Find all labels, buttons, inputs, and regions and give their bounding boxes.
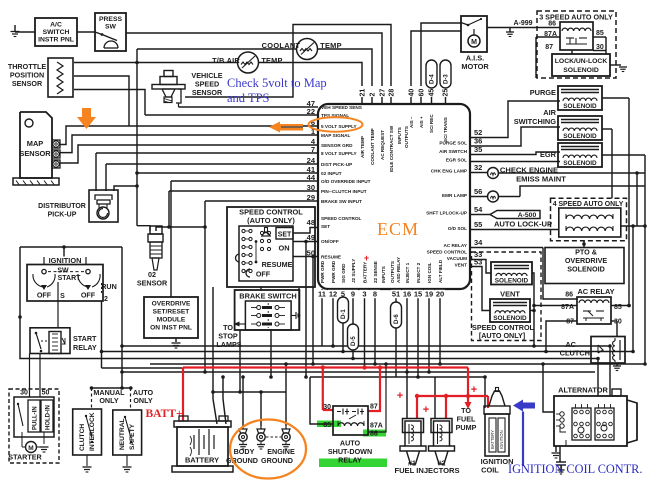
svg-text:COIL: COIL <box>481 466 499 475</box>
svg-text:EGR SOL: EGR SOL <box>446 158 467 163</box>
svg-text:FUEL INJECTORS: FUEL INJECTORS <box>394 466 459 475</box>
svg-text:2: 2 <box>104 296 108 303</box>
svg-text:87: 87 <box>370 404 378 411</box>
svg-text:30: 30 <box>614 319 622 326</box>
svg-text:SAFETY: SAFETY <box>129 423 136 450</box>
svg-text:AIS –: AIS – <box>409 116 414 128</box>
svg-text:48: 48 <box>307 218 315 227</box>
svg-text:IGNITION: IGNITION <box>49 256 82 265</box>
svg-text:SENSOR GRD: SENSOR GRD <box>321 143 353 148</box>
svg-text:21: 21 <box>360 89 367 97</box>
svg-text:50: 50 <box>42 390 50 397</box>
svg-text:SENSOR: SENSOR <box>19 149 51 158</box>
svg-text:D-4: D-4 <box>430 74 436 84</box>
svg-text:87: 87 <box>566 319 574 326</box>
svg-text:PICK-UP: PICK-UP <box>48 212 77 219</box>
svg-text:T/B AIR: T/B AIR <box>212 56 240 65</box>
svg-text:SIG GRD: SIG GRD <box>341 263 346 283</box>
svg-text:27: 27 <box>380 89 387 97</box>
svg-text:PULL-IN: PULL-IN <box>33 406 39 430</box>
svg-text:29: 29 <box>307 193 315 202</box>
svg-text:22: 22 <box>307 107 315 116</box>
svg-text:PIN--CLUTCH INPUT: PIN--CLUTCH INPUT <box>321 189 367 194</box>
svg-text:SW: SW <box>105 24 117 31</box>
svg-text:53: 53 <box>474 258 482 267</box>
svg-text:30: 30 <box>307 183 315 192</box>
svg-text:VENT: VENT <box>454 263 467 268</box>
svg-text:87: 87 <box>545 44 553 51</box>
svg-text:J2 SUPPLY: J2 SUPPLY <box>351 259 356 283</box>
svg-text:49: 49 <box>307 233 315 242</box>
svg-text:87A: 87A <box>544 31 557 38</box>
svg-text:SCI REC: SCI REC <box>429 114 434 133</box>
svg-text:+: + <box>423 404 429 416</box>
svg-text:35: 35 <box>474 145 482 154</box>
svg-text:LAMPS: LAMPS <box>216 340 241 349</box>
svg-text:O/D OVERRIDE INPUT: O/D OVERRIDE INPUT <box>321 179 371 184</box>
svg-text:30: 30 <box>596 44 604 51</box>
svg-text:INJECT 1: INJECT 1 <box>405 262 410 283</box>
svg-text:RELAY: RELAY <box>338 456 362 465</box>
svg-text:EGR: EGR <box>540 150 557 159</box>
svg-text:30: 30 <box>323 404 331 411</box>
svg-text:SENSOR: SENSOR <box>137 279 168 288</box>
svg-text:BATTERY: BATTERY <box>490 430 495 449</box>
svg-text:ON/OFF: ON/OFF <box>321 239 339 244</box>
svg-text:M: M <box>471 39 477 46</box>
svg-text:85: 85 <box>614 304 622 311</box>
svg-text:20: 20 <box>436 290 444 299</box>
svg-text:BODY: BODY <box>234 447 255 456</box>
svg-text:STARTER: STARTER <box>8 453 42 462</box>
svg-text:ONLY: ONLY <box>133 396 153 405</box>
svg-text:LOCK/UN-LOCK: LOCK/UN-LOCK <box>555 58 608 65</box>
svg-text:ECM: ECM <box>377 219 419 239</box>
svg-text:CHK ENG LAMP: CHK ENG LAMP <box>431 169 467 174</box>
svg-text:OUTPUTS: OUTPUTS <box>390 261 395 283</box>
svg-text:HOLD-IN: HOLD-IN <box>46 405 52 430</box>
svg-text:AUTO LOCK-UP: AUTO LOCK-UP <box>494 220 552 229</box>
svg-text:COOLANT TEMP: COOLANT TEMP <box>370 128 375 165</box>
svg-text:44: 44 <box>307 173 316 182</box>
svg-text:56: 56 <box>474 187 482 196</box>
svg-text:SOLENOID: SOLENOID <box>563 160 597 167</box>
svg-text:OFF: OFF <box>37 291 52 300</box>
svg-text:SOLENOID: SOLENOID <box>567 265 605 274</box>
svg-text:D-5: D-5 <box>351 336 357 346</box>
svg-text:86: 86 <box>565 292 573 299</box>
svg-text:4 SPEED AUTO ONLY: 4 SPEED AUTO ONLY <box>553 201 624 208</box>
svg-text:GROUND: GROUND <box>261 456 293 465</box>
svg-text:SPEED CONTROL: SPEED CONTROL <box>427 250 468 255</box>
svg-text:SOLENOID: SOLENOID <box>495 277 529 284</box>
svg-text:D-1: D-1 <box>341 309 347 319</box>
svg-text:RUN: RUN <box>101 282 117 291</box>
svg-text:Check 5volt to Map: Check 5volt to Map <box>227 76 327 90</box>
svg-text:AIR: AIR <box>543 108 556 117</box>
svg-text:ALTERNATOR: ALTERNATOR <box>558 386 608 395</box>
svg-text:BATTERY: BATTERY <box>185 456 219 465</box>
svg-text:OFF: OFF <box>256 270 271 279</box>
svg-text:MODULE: MODULE <box>157 317 186 324</box>
svg-text:SET: SET <box>278 232 292 239</box>
svg-text:50: 50 <box>307 249 315 258</box>
svg-text:85: 85 <box>323 422 331 429</box>
svg-text:15: 15 <box>414 290 422 299</box>
svg-text:A/C: A/C <box>50 22 62 29</box>
svg-text:SOLENOID: SOLENOID <box>563 133 597 140</box>
svg-text:+: + <box>397 390 403 402</box>
svg-text:A-500: A-500 <box>518 212 537 219</box>
svg-text:30: 30 <box>20 390 28 397</box>
svg-text:SHFT LPLOCK-UP: SHFT LPLOCK-UP <box>426 211 467 216</box>
svg-text:O/D SOL: O/D SOL <box>448 226 467 231</box>
svg-text:SWITCHING: SWITCHING <box>514 117 557 126</box>
svg-text:SOLENOID: SOLENOID <box>493 315 527 322</box>
svg-text:+: + <box>364 253 369 263</box>
svg-text:28: 28 <box>389 89 396 97</box>
svg-text:IGNITION: IGNITION <box>499 430 504 449</box>
svg-text:PRESS: PRESS <box>99 16 123 23</box>
svg-text:7: 7 <box>311 145 315 154</box>
svg-text:PUMP: PUMP <box>456 423 477 432</box>
svg-text:86: 86 <box>548 21 556 28</box>
svg-text:BRAKE SWITCH: BRAKE SWITCH <box>239 292 296 301</box>
svg-text:BATT+: BATT+ <box>145 408 182 420</box>
svg-text:MOTOR: MOTOR <box>461 62 489 71</box>
svg-text:CLUTCH: CLUTCH <box>79 424 86 451</box>
svg-text:SENSOR: SENSOR <box>12 79 43 88</box>
svg-text:25: 25 <box>443 89 450 97</box>
svg-text:[AUTO ONLY]: [AUTO ONLY] <box>479 331 525 340</box>
svg-text:AC RELAY: AC RELAY <box>577 287 614 296</box>
svg-text:16: 16 <box>403 290 411 299</box>
svg-text:19: 19 <box>425 290 433 299</box>
svg-text:PWR GRD: PWR GRD <box>320 260 325 283</box>
svg-text:D-3: D-3 <box>444 74 450 84</box>
svg-text:VEH SPEED SENS: VEH SPEED SENS <box>321 105 362 110</box>
svg-text:CHECK ENGINE: CHECK ENGINE <box>500 166 558 175</box>
svg-text:ASD RELAY: ASD RELAY <box>396 257 401 283</box>
svg-text:IDLE CONTRACT SW: IDLE CONTRACT SW <box>389 125 394 172</box>
svg-text:SET/RESET: SET/RESET <box>153 309 190 316</box>
svg-text:55: 55 <box>474 220 482 229</box>
svg-text:INSTR PNL: INSTR PNL <box>38 37 74 44</box>
svg-text:AIS +: AIS + <box>419 116 424 128</box>
svg-text:PURGE SOL: PURGE SOL <box>439 141 467 146</box>
svg-text:85: 85 <box>596 30 604 37</box>
svg-text:RESUME: RESUME <box>321 255 341 260</box>
svg-text:ON INST PNL: ON INST PNL <box>150 325 192 332</box>
svg-text:AC REQUEST: AC REQUEST <box>380 130 385 160</box>
svg-text:8: 8 <box>373 290 377 299</box>
svg-text:INPUTS: INPUTS <box>381 266 386 283</box>
svg-text:ENGINE: ENGINE <box>267 447 295 456</box>
svg-text:54: 54 <box>474 205 483 214</box>
svg-text:COOLANT: COOLANT <box>262 41 301 50</box>
svg-text:+: + <box>471 384 477 396</box>
svg-text:22 SENSE: 22 SENSE <box>373 261 378 283</box>
svg-text:MAP SIGNAL: MAP SIGNAL <box>321 133 350 138</box>
svg-text:SOLENOID: SOLENOID <box>563 67 599 74</box>
svg-text:TEMP: TEMP <box>320 41 342 50</box>
svg-text:SOLENOID: SOLENOID <box>563 103 597 110</box>
svg-text:TEMP: TEMP <box>261 56 282 65</box>
svg-text:M: M <box>28 445 33 452</box>
svg-text:5 VOLT SUPPLY: 5 VOLT SUPPLY <box>321 124 358 129</box>
svg-text:9: 9 <box>351 290 355 299</box>
svg-text:45: 45 <box>429 89 436 97</box>
svg-text:02 INPUT: 02 INPUT <box>321 171 342 176</box>
svg-text:32: 32 <box>474 163 482 172</box>
svg-text:RELAY: RELAY <box>73 343 97 352</box>
svg-text:12: 12 <box>329 290 337 299</box>
svg-text:MAP: MAP <box>27 139 43 148</box>
svg-text:RESUME: RESUME <box>262 260 293 269</box>
svg-text:51: 51 <box>392 290 400 299</box>
svg-text:VENT: VENT <box>500 290 520 299</box>
svg-text:PURGE: PURGE <box>530 88 556 97</box>
svg-text:EMISS MAINT: EMISS MAINT <box>516 175 566 184</box>
svg-text:SET: SET <box>321 224 330 229</box>
svg-text:AC RELAY: AC RELAY <box>443 243 467 248</box>
svg-text:and TPS: and TPS <box>227 91 270 105</box>
svg-text:(AUTO ONLY): (AUTO ONLY) <box>247 216 295 225</box>
svg-text:INPUTS: INPUTS <box>397 127 402 144</box>
svg-text:INJECT 2: INJECT 2 <box>416 262 421 283</box>
svg-text:SW: SW <box>57 268 69 275</box>
svg-text:EMR LAMP: EMR LAMP <box>442 193 467 198</box>
svg-text:2: 2 <box>370 93 377 97</box>
svg-text:IGNITION COIL CONTR.: IGNITION COIL CONTR. <box>508 462 642 476</box>
svg-text:BRAKE SW INPUT: BRAKE SW INPUT <box>321 199 362 204</box>
svg-text:ALT FIELD: ALT FIELD <box>438 259 443 283</box>
svg-text:SPEED CONTROL: SPEED CONTROL <box>321 216 362 221</box>
svg-text:DIST PICK-UP: DIST PICK-UP <box>321 162 352 167</box>
svg-text:OVERDRIVE: OVERDRIVE <box>152 301 191 308</box>
svg-text:ONLY: ONLY <box>99 396 119 405</box>
svg-text:START: START <box>73 334 97 343</box>
svg-text:AIR SWITCH: AIR SWITCH <box>439 149 467 154</box>
svg-text:SENSOR: SENSOR <box>192 88 223 97</box>
svg-text:IGN COIL: IGN COIL <box>427 262 432 283</box>
svg-text:60: 60 <box>419 89 426 97</box>
svg-text:DISTRIBUTOR: DISTRIBUTOR <box>38 203 86 210</box>
svg-text:A-999: A-999 <box>513 20 532 27</box>
svg-text:CLUTCH: CLUTCH <box>560 349 590 358</box>
svg-text:VACUUM: VACUUM <box>447 256 467 261</box>
svg-text:40: 40 <box>409 89 416 97</box>
svg-text:87A: 87A <box>561 304 574 311</box>
svg-text:11: 11 <box>318 290 326 299</box>
svg-text:PWR GRD: PWR GRD <box>331 260 336 283</box>
svg-text:BATTERY: BATTERY <box>363 262 368 283</box>
svg-text:SCI TRANS: SCI TRANS <box>443 117 448 142</box>
svg-text:AIR TEMP: AIR TEMP <box>360 136 365 158</box>
svg-text:S: S <box>60 293 65 300</box>
svg-text:87A: 87A <box>370 423 383 430</box>
svg-text:3: 3 <box>362 290 366 299</box>
svg-text:NEUTRAL: NEUTRAL <box>119 418 126 450</box>
svg-text:8 VOLT SUPPLY: 8 VOLT SUPPLY <box>321 151 358 156</box>
svg-text:24: 24 <box>307 156 316 165</box>
svg-text:34: 34 <box>474 238 483 247</box>
svg-text:SWITCH: SWITCH <box>43 29 70 36</box>
svg-text:ON: ON <box>278 244 289 253</box>
svg-text:OFF: OFF <box>81 291 96 300</box>
svg-text:D-6: D-6 <box>394 314 400 324</box>
svg-text:OUTPUTS: OUTPUTS <box>404 126 409 148</box>
